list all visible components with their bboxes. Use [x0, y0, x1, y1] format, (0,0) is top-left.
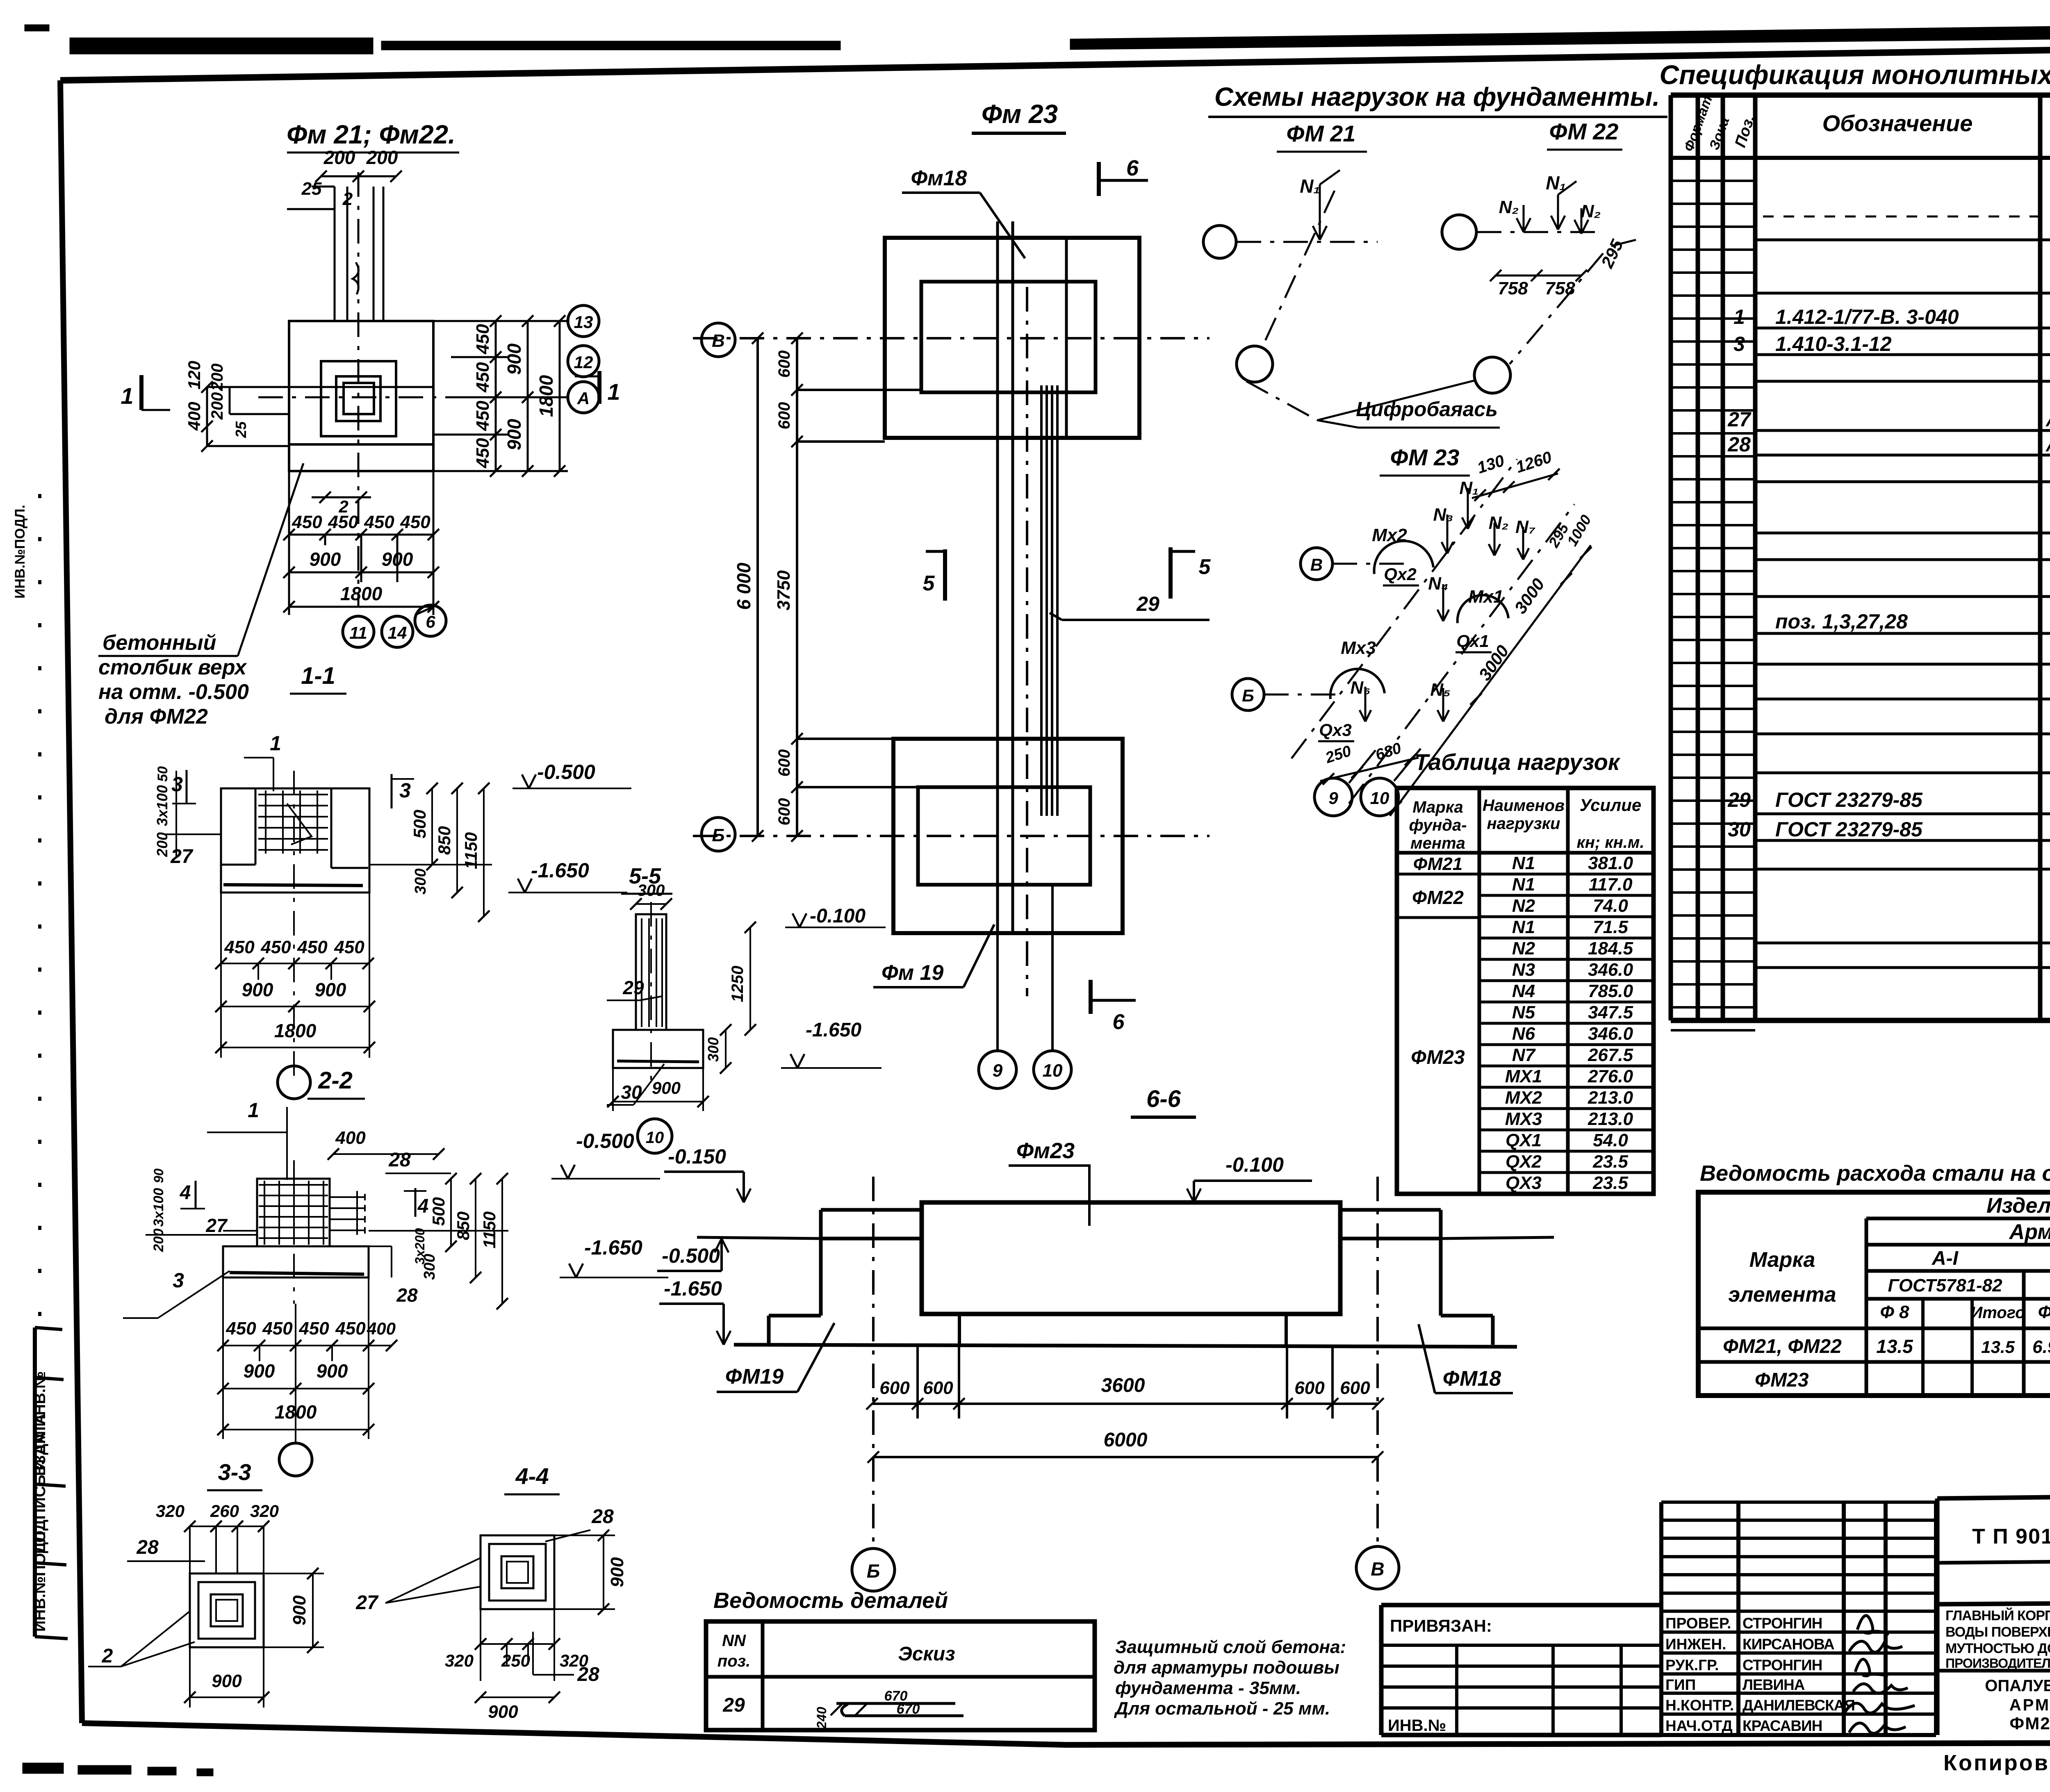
- svg-text:фундамента - 35мм.: фундамента - 35мм.: [1115, 1678, 1301, 1698]
- svg-text:MX1: MX1: [1505, 1066, 1542, 1086]
- svg-text:4-4: 4-4: [515, 1463, 549, 1489]
- svg-text:MX3: MX3: [1505, 1109, 1542, 1129]
- svg-text:ГЛАВНЫЙ КОРПУС ДЛЯСТАНЦИИ ОЧИС: ГЛАВНЫЙ КОРПУС ДЛЯСТАНЦИИ ОЧИСТКИ: [1945, 1608, 2050, 1624]
- svg-text:ГИП: ГИП: [1665, 1676, 1696, 1693]
- svg-text:Марка: Марка: [1749, 1248, 1815, 1272]
- svg-text:450: 450: [260, 937, 291, 957]
- svg-text:200: 200: [323, 147, 355, 168]
- svg-text:29: 29: [1136, 592, 1159, 615]
- svg-text:-0.100: -0.100: [810, 905, 866, 927]
- svg-text:267.5: 267.5: [1588, 1045, 1633, 1065]
- svg-text:Цифробаяась: Цифробаяась: [1356, 398, 1498, 421]
- svg-text:1: 1: [270, 732, 281, 755]
- svg-text:12: 12: [574, 353, 593, 372]
- svg-text:А: А: [577, 389, 590, 408]
- svg-text:А-I: А-I: [1932, 1248, 1959, 1269]
- svg-text:Фм 19: Фм 19: [881, 961, 943, 985]
- svg-text:10: 10: [1043, 1061, 1063, 1081]
- svg-text:27: 27: [355, 1592, 379, 1614]
- svg-text:QX1: QX1: [1506, 1130, 1542, 1150]
- svg-text:200: 200: [208, 392, 226, 420]
- svg-text:фунда-: фунда-: [1409, 816, 1467, 834]
- svg-text:400: 400: [367, 1319, 396, 1338]
- svg-text:900: 900: [289, 1595, 310, 1626]
- svg-text:450: 450: [334, 937, 364, 957]
- svg-text:25: 25: [301, 179, 322, 199]
- svg-text:1: 1: [121, 383, 133, 409]
- svg-text:-0.500: -0.500: [576, 1129, 634, 1152]
- svg-text:Наименов: Наименов: [1483, 797, 1565, 815]
- svg-text:ФМ 21: ФМ 21: [1287, 121, 1356, 146]
- svg-text:ФМ23: ФМ23: [1411, 1047, 1465, 1068]
- svg-text:NN: NN: [722, 1632, 746, 1650]
- svg-text:Эскиз: Эскиз: [898, 1643, 955, 1665]
- svg-text:ГОСТ5781-82: ГОСТ5781-82: [1888, 1275, 2002, 1296]
- svg-text:670: 670: [897, 1701, 920, 1717]
- svg-text:N₃: N₃: [1433, 505, 1453, 525]
- svg-text:В: В: [1371, 1558, 1384, 1580]
- svg-text:кн; кн.м.: кн; кн.м.: [1576, 833, 1644, 852]
- svg-text:Б: Б: [712, 825, 724, 845]
- svg-text:-0.150: -0.150: [668, 1145, 726, 1168]
- svg-text:300: 300: [638, 881, 665, 899]
- svg-text:450: 450: [400, 512, 430, 532]
- svg-text:3: 3: [173, 1269, 184, 1292]
- svg-text:500: 500: [429, 1197, 448, 1226]
- svg-text:ВОДЫ ПОВЕРХНОСТНЫХ ИСТОЧНИКОВ: ВОДЫ ПОВЕРХНОСТНЫХ ИСТОЧНИКОВ: [1945, 1624, 2050, 1640]
- svg-text:850: 850: [453, 1211, 473, 1240]
- svg-text:450: 450: [298, 1318, 329, 1339]
- svg-text:Ведомость расхода стали на оди: Ведомость расхода стали на один элемент,…: [1700, 1161, 2050, 1186]
- svg-text:поз. 1,3,27,28: поз. 1,3,27,28: [1775, 610, 1908, 633]
- svg-text:ФМ23: ФМ23: [1755, 1369, 1809, 1391]
- svg-text:600: 600: [775, 402, 793, 430]
- svg-text:850: 850: [435, 826, 454, 855]
- svg-text:450: 450: [225, 1318, 256, 1339]
- svg-text:В: В: [712, 331, 725, 351]
- svg-text:3х100: 3х100: [154, 785, 171, 826]
- svg-text:6: 6: [426, 612, 435, 631]
- svg-text:900: 900: [212, 1671, 242, 1691]
- svg-text:381.0: 381.0: [1588, 853, 1633, 873]
- svg-text:нагрузки: нагрузки: [1487, 815, 1560, 833]
- svg-text:поз.: поз.: [717, 1652, 750, 1670]
- svg-text:N6: N6: [1512, 1024, 1535, 1044]
- svg-text:ГОСТ 23279-85: ГОСТ 23279-85: [1775, 788, 1923, 811]
- svg-text:450: 450: [224, 937, 255, 957]
- svg-text:29: 29: [622, 977, 644, 998]
- svg-text:346.0: 346.0: [1588, 960, 1633, 980]
- svg-text:28: 28: [388, 1149, 411, 1171]
- svg-text:-0.100: -0.100: [1225, 1153, 1284, 1176]
- svg-text:Для остальной - 25 мм.: Для остальной - 25 мм.: [1114, 1699, 1330, 1719]
- svg-text:117.0: 117.0: [1589, 874, 1633, 895]
- svg-text:Изделия арматурные: Изделия арматурные: [1986, 1194, 2050, 1218]
- svg-text:N3: N3: [1512, 960, 1535, 980]
- svg-text:2: 2: [102, 1645, 113, 1667]
- svg-text:785.0: 785.0: [1588, 981, 1633, 1001]
- svg-text:23.5: 23.5: [1592, 1173, 1628, 1193]
- svg-text:30: 30: [621, 1082, 642, 1103]
- svg-text:28: 28: [591, 1506, 614, 1528]
- svg-text:ИНЖЕН.: ИНЖЕН.: [1665, 1636, 1726, 1653]
- svg-text:ФМ22: ФМ22: [1412, 887, 1464, 908]
- svg-text:N₄: N₄: [1428, 574, 1448, 594]
- svg-text:6: 6: [1113, 1010, 1125, 1034]
- svg-text:-1.650: -1.650: [584, 1236, 642, 1259]
- svg-text:450: 450: [262, 1318, 293, 1339]
- svg-text:QX2: QX2: [1506, 1152, 1542, 1172]
- svg-text:400: 400: [184, 402, 204, 431]
- svg-text:50: 50: [155, 766, 171, 782]
- svg-text:КИРСАНОВА: КИРСАНОВА: [1742, 1636, 1834, 1653]
- svg-text:600: 600: [775, 749, 793, 777]
- svg-text:2-2: 2-2: [318, 1067, 353, 1094]
- svg-text:1: 1: [248, 1099, 259, 1122]
- svg-text:ПРИВЯЗАН:: ПРИВЯЗАН:: [1390, 1616, 1492, 1635]
- svg-text:Обозначение: Обозначение: [1822, 110, 1973, 136]
- svg-text:-1.650: -1.650: [806, 1019, 861, 1041]
- svg-text:1800: 1800: [340, 583, 383, 604]
- svg-text:400: 400: [335, 1128, 366, 1148]
- svg-text:Фм 21; Фм22.: Фм 21; Фм22.: [287, 120, 456, 149]
- svg-text:ПРОВЕР.: ПРОВЕР.: [1665, 1615, 1731, 1632]
- svg-text:ФМ21÷ ФМ 23.: ФМ21÷ ФМ 23.: [2009, 1714, 2050, 1733]
- svg-text:Mх2: Mх2: [1372, 525, 1407, 545]
- svg-text:900: 900: [244, 1360, 275, 1382]
- svg-text:СТРОНГИН: СТРОНГИН: [1742, 1657, 1822, 1674]
- svg-text:НАЧ.ОТД: НАЧ.ОТД: [1665, 1717, 1733, 1734]
- svg-text:347.5: 347.5: [1588, 1002, 1633, 1022]
- svg-text:А-Ш-10ГОСТ5781-82; ℓ=1600: А-Ш-10ГОСТ5781-82; ℓ=1600: [2045, 436, 2050, 455]
- svg-text:9: 9: [993, 1061, 1003, 1081]
- svg-text:1250: 1250: [729, 966, 747, 1002]
- svg-text:1-1: 1-1: [301, 663, 335, 689]
- svg-text:120: 120: [184, 361, 204, 389]
- svg-text:600: 600: [775, 351, 793, 378]
- svg-text:13.5: 13.5: [1876, 1336, 1913, 1357]
- svg-text:300: 300: [705, 1037, 722, 1062]
- svg-text:N7: N7: [1512, 1045, 1536, 1065]
- svg-text:Усилие: Усилие: [1580, 795, 1642, 815]
- svg-text:900: 900: [317, 1360, 348, 1382]
- svg-text:450: 450: [328, 512, 358, 532]
- svg-text:6000: 6000: [1104, 1429, 1148, 1451]
- svg-text:213.0: 213.0: [1588, 1088, 1633, 1108]
- svg-text:900: 900: [503, 419, 525, 450]
- svg-text:ИНВ.№ПОДЛ.: ИНВ.№ПОДЛ.: [12, 505, 28, 599]
- svg-text:300: 300: [412, 868, 429, 894]
- svg-text:Б: Б: [867, 1560, 880, 1582]
- svg-text:для ФМ22: для ФМ22: [105, 705, 208, 729]
- svg-text:213.0: 213.0: [1588, 1109, 1633, 1129]
- svg-text:N1: N1: [1512, 853, 1535, 873]
- svg-text:КРАСАВИН: КРАСАВИН: [1742, 1717, 1822, 1734]
- svg-text:500: 500: [410, 810, 429, 838]
- svg-text:13.5: 13.5: [1981, 1337, 2015, 1357]
- svg-text:ФМ21, ФМ22: ФМ21, ФМ22: [1723, 1336, 1842, 1357]
- svg-text:200: 200: [151, 1229, 166, 1252]
- svg-text:28: 28: [1727, 433, 1751, 456]
- svg-text:МУТНОСТЬЮ ДО 1500МГ/Л: МУТНОСТЬЮ ДО 1500МГ/Л: [1945, 1641, 2050, 1656]
- svg-text:74.0: 74.0: [1593, 896, 1628, 916]
- svg-text:6-6: 6-6: [1146, 1086, 1181, 1112]
- svg-text:450: 450: [473, 438, 493, 469]
- svg-text:30: 30: [1728, 818, 1751, 841]
- svg-text:25: 25: [232, 421, 249, 438]
- svg-text:-0.500: -0.500: [662, 1244, 720, 1267]
- svg-text:Qх2: Qх2: [1384, 565, 1416, 584]
- svg-text:Марка: Марка: [1412, 798, 1463, 816]
- svg-text:320: 320: [250, 1501, 279, 1521]
- svg-text:Таблица нагрузок: Таблица нагрузок: [1414, 749, 1621, 775]
- svg-text:600: 600: [775, 798, 793, 826]
- svg-text:ЛЕВИНА: ЛЕВИНА: [1742, 1676, 1805, 1693]
- svg-text:3750: 3750: [774, 570, 794, 610]
- svg-text:6 000: 6 000: [733, 562, 754, 610]
- svg-text:14: 14: [388, 623, 407, 642]
- svg-text:2: 2: [342, 189, 353, 209]
- svg-text:276.0: 276.0: [1588, 1066, 1633, 1086]
- svg-text:Копировал: Логинова: Копировал: Логинова: [1943, 1751, 2050, 1775]
- svg-text:320: 320: [156, 1501, 184, 1521]
- svg-text:QX3: QX3: [1506, 1173, 1542, 1193]
- svg-text:А-Ш-12 ГОСТ5781-82; ℓ=1100: А-Ш-12 ГОСТ5781-82; ℓ=1100: [2045, 411, 2050, 430]
- svg-text:900: 900: [652, 1078, 681, 1098]
- svg-text:5: 5: [1199, 555, 1211, 579]
- svg-text:N₂: N₂: [1489, 513, 1509, 533]
- svg-text:Т П 901-3-244.88: Т П 901-3-244.88: [1972, 1525, 2050, 1548]
- svg-text:9: 9: [1328, 788, 1338, 808]
- svg-text:3-3: 3-3: [218, 1459, 251, 1485]
- svg-text:Н.КОНТР.: Н.КОНТР.: [1665, 1697, 1734, 1714]
- svg-text:N1: N1: [1512, 874, 1535, 895]
- svg-text:3х200: 3х200: [412, 1228, 427, 1264]
- svg-text:6.93: 6.93: [2032, 1337, 2050, 1357]
- svg-text:346.0: 346.0: [1588, 1024, 1633, 1044]
- svg-text:13: 13: [574, 312, 593, 332]
- svg-text:320: 320: [445, 1651, 474, 1670]
- svg-text:5: 5: [923, 572, 935, 595]
- svg-text:Итого: Итого: [1970, 1304, 2025, 1322]
- svg-text:23.5: 23.5: [1592, 1152, 1628, 1172]
- svg-text:600: 600: [879, 1378, 910, 1398]
- svg-text:Qх1: Qх1: [1456, 631, 1489, 651]
- svg-text:СТРОНГИН: СТРОНГИН: [1742, 1615, 1822, 1632]
- svg-text:Фм 23: Фм 23: [982, 99, 1058, 129]
- svg-text:450: 450: [473, 324, 493, 355]
- svg-text:N₆: N₆: [1350, 678, 1370, 698]
- svg-text:1.410-3.1-12: 1.410-3.1-12: [1775, 332, 1892, 355]
- svg-text:1.412-1/77-В. 3-040: 1.412-1/77-В. 3-040: [1775, 305, 1959, 328]
- svg-text:27: 27: [205, 1215, 228, 1236]
- svg-text:900: 900: [315, 979, 346, 1000]
- svg-text:3: 3: [171, 773, 183, 796]
- svg-text:450: 450: [297, 937, 328, 957]
- svg-text:Mх3: Mх3: [1341, 638, 1376, 658]
- svg-text:элемента: элемента: [1728, 1283, 1836, 1307]
- svg-text:N₅: N₅: [1430, 680, 1450, 700]
- svg-text:184.5: 184.5: [1588, 938, 1633, 959]
- svg-text:1: 1: [607, 379, 620, 405]
- svg-text:РУК.ГР.: РУК.ГР.: [1665, 1657, 1719, 1674]
- svg-text:900: 900: [242, 979, 273, 1000]
- svg-text:для арматуры подошвы: для арматуры подошвы: [1114, 1658, 1339, 1678]
- svg-text:450: 450: [364, 512, 394, 532]
- svg-text:В: В: [1310, 555, 1323, 574]
- svg-text:столбик верх: столбик верх: [98, 656, 247, 679]
- svg-text:450: 450: [335, 1318, 366, 1339]
- svg-text:N2: N2: [1512, 938, 1535, 959]
- svg-text:4: 4: [180, 1182, 191, 1204]
- svg-text:28: 28: [577, 1664, 599, 1685]
- svg-text:3: 3: [399, 779, 411, 802]
- svg-text:758: 758: [1545, 278, 1575, 298]
- svg-text:Mх1: Mх1: [1468, 587, 1503, 607]
- svg-text:ВЗАМ ИНВ.№: ВЗАМ ИНВ.№: [32, 1371, 49, 1476]
- svg-text:бетонный: бетонный: [102, 631, 216, 655]
- svg-text:ФМ21: ФМ21: [1413, 854, 1462, 874]
- svg-text:Защитный слой бетона:: Защитный слой бетона:: [1115, 1637, 1346, 1657]
- svg-text:N₁: N₁: [1459, 478, 1478, 498]
- svg-text:Qх3: Qх3: [1319, 720, 1351, 740]
- svg-text:N4: N4: [1512, 981, 1535, 1001]
- svg-text:11: 11: [349, 623, 367, 642]
- svg-text:240: 240: [814, 1707, 829, 1729]
- svg-text:ОПАЛУБОЧНЫЙ ЧЕРТЕЖ.: ОПАЛУБОЧНЫЙ ЧЕРТЕЖ.: [1985, 1676, 2050, 1695]
- svg-text:Схемы нагрузок на фундаменты.: Схемы нагрузок на фундаменты.: [1214, 82, 1660, 112]
- svg-text:N5: N5: [1512, 1002, 1535, 1022]
- svg-text:1150: 1150: [461, 832, 481, 869]
- svg-text:Арматура класса: Арматура класса: [2009, 1220, 2050, 1244]
- svg-text:29: 29: [1727, 788, 1751, 811]
- svg-text:Ф8: Ф8: [2038, 1302, 2050, 1322]
- svg-text:27: 27: [170, 846, 194, 868]
- svg-text:ФМ19: ФМ19: [725, 1365, 784, 1389]
- svg-text:Б: Б: [1242, 686, 1254, 705]
- svg-text:600: 600: [1294, 1378, 1325, 1398]
- svg-text:28: 28: [136, 1537, 159, 1558]
- svg-text:мента: мента: [1410, 834, 1465, 852]
- svg-text:N₇: N₇: [1515, 517, 1535, 537]
- svg-text:ГОСТ 23279-85: ГОСТ 23279-85: [1775, 818, 1923, 841]
- svg-text:10: 10: [1370, 788, 1389, 808]
- svg-text:900: 900: [310, 549, 341, 570]
- svg-text:Фм18: Фм18: [911, 166, 967, 190]
- svg-text:900: 900: [488, 1702, 518, 1722]
- svg-text:6: 6: [1126, 156, 1139, 180]
- svg-text:ФМ18: ФМ18: [1443, 1367, 1501, 1391]
- svg-text:Спецификация монолитных фундам: Спецификация монолитных фундаментов ФМ21…: [1659, 59, 2050, 90]
- svg-text:10: 10: [646, 1129, 664, 1147]
- svg-text:N₂: N₂: [1581, 201, 1601, 221]
- svg-text:28: 28: [396, 1284, 418, 1306]
- svg-text:3х100: 3х100: [151, 1188, 166, 1227]
- svg-text:на отм. -0.500: на отм. -0.500: [98, 680, 249, 704]
- svg-text:MX2: MX2: [1505, 1088, 1542, 1108]
- svg-text:900: 900: [607, 1557, 627, 1587]
- svg-text:200: 200: [366, 147, 398, 168]
- svg-text:ДАНИЛЕВСКАЯ: ДАНИЛЕВСКАЯ: [1742, 1697, 1855, 1714]
- svg-text:1: 1: [1733, 305, 1745, 328]
- svg-text:ПРОИЗВОДИТЕЛЬНОСТЬЮ 12,5тыс.м³: ПРОИЗВОДИТЕЛЬНОСТЬЮ 12,5тыс.м³/сут.: [1945, 1656, 2050, 1671]
- svg-text:-0.500: -0.500: [537, 761, 595, 783]
- svg-text:450: 450: [473, 401, 493, 431]
- svg-text:260: 260: [210, 1501, 239, 1521]
- svg-text:600: 600: [923, 1378, 953, 1398]
- svg-text:54.0: 54.0: [1593, 1130, 1628, 1150]
- svg-text:1800: 1800: [535, 375, 557, 417]
- svg-text:Ведомость деталей: Ведомость деталей: [713, 1588, 948, 1613]
- svg-text:450: 450: [473, 362, 493, 393]
- svg-text:450: 450: [292, 512, 322, 532]
- svg-text:N2: N2: [1512, 896, 1535, 916]
- svg-text:900: 900: [503, 343, 525, 375]
- svg-text:600: 600: [1340, 1378, 1370, 1398]
- svg-text:200: 200: [154, 832, 171, 857]
- svg-text:-1.650: -1.650: [664, 1277, 722, 1300]
- svg-text:ФМ 23: ФМ 23: [1390, 444, 1460, 470]
- svg-text:N₂: N₂: [1499, 197, 1519, 217]
- svg-text:758: 758: [1498, 278, 1528, 298]
- svg-text:АРМИРОВАНИЕ: АРМИРОВАНИЕ: [2009, 1696, 2050, 1714]
- svg-text:29: 29: [722, 1694, 745, 1716]
- svg-text:Фм23: Фм23: [1016, 1139, 1075, 1163]
- svg-text:ИНВ.№: ИНВ.№: [1388, 1717, 1446, 1735]
- svg-text:90: 90: [151, 1168, 166, 1183]
- svg-text:N₁: N₁: [1300, 175, 1320, 197]
- svg-text:250: 250: [501, 1651, 530, 1670]
- svg-text:27: 27: [1727, 408, 1752, 431]
- svg-text:-1.650: -1.650: [531, 859, 589, 882]
- svg-text:1800: 1800: [274, 1020, 317, 1041]
- svg-text:3: 3: [1733, 332, 1745, 355]
- svg-text:ФМ 22: ФМ 22: [1549, 118, 1619, 144]
- svg-text:4: 4: [417, 1195, 429, 1217]
- svg-text:71.5: 71.5: [1593, 917, 1628, 937]
- svg-text:Ф 8: Ф 8: [1880, 1302, 1909, 1322]
- svg-text:N1: N1: [1512, 917, 1535, 937]
- svg-text:3600: 3600: [1101, 1375, 1145, 1396]
